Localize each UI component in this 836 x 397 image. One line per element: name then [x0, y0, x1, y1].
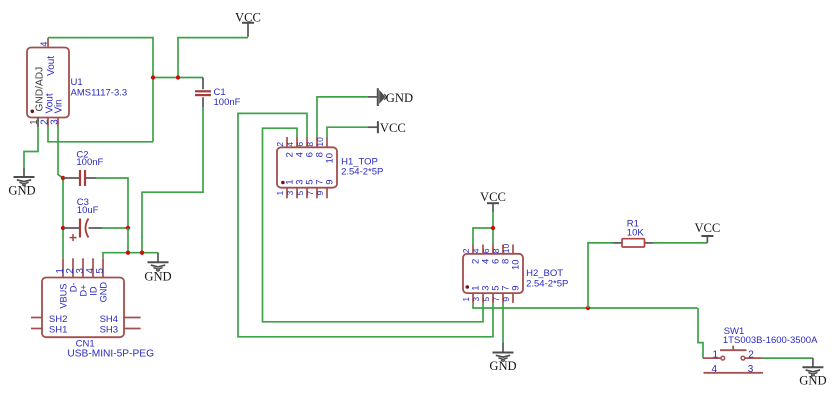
svg-text:8: 8	[305, 142, 315, 147]
wire H1 pin8 to GND flag	[317, 97, 368, 137]
ground flag 1 (left)	[8, 168, 35, 198]
wire H1 pin4 loop (inner) to H2 pin3	[263, 128, 484, 322]
wire GND rail bottom	[103, 253, 158, 259]
wire C1 bottom to GND rail	[142, 107, 203, 252]
svg-text:SH4: SH4	[100, 314, 118, 325]
H2 pin 5 (bottom)	[481, 285, 501, 302]
capacitor C1	[195, 78, 241, 108]
svg-text:GND: GND	[489, 359, 516, 373]
power flag VCC (rotated, H1)	[368, 121, 406, 135]
svg-text:4: 4	[39, 42, 49, 47]
junction R1 bottom	[586, 306, 590, 310]
svg-text:5: 5	[481, 297, 491, 302]
svg-text:1: 1	[275, 191, 285, 196]
svg-text:10K: 10K	[627, 227, 645, 238]
svg-text:100nF: 100nF	[214, 97, 241, 108]
wire SW1 pin2 to GND	[763, 357, 813, 359]
svg-text:SH3: SH3	[100, 324, 118, 335]
junction VCC rail A	[151, 75, 155, 79]
svg-text:7: 7	[305, 191, 315, 196]
svg-text:D-: D-	[68, 282, 78, 292]
svg-text:9: 9	[325, 180, 336, 185]
wire H2 pin7 to GND	[502, 303, 504, 343]
CN1 shield pin SH2	[31, 314, 67, 325]
U1 pin 1 GND/ADJ	[29, 67, 45, 127]
H1 labels	[341, 156, 383, 177]
junction GND rail B	[140, 251, 144, 255]
wire H1 pin6 loop (outer) to H2 pin5	[238, 113, 493, 336]
svg-text:3: 3	[285, 191, 295, 196]
H2 pin 9 (bottom)	[501, 285, 521, 302]
H1 pin 10 (top)	[315, 137, 335, 164]
U1 labels	[71, 77, 128, 99]
svg-text:9: 9	[315, 191, 325, 196]
wire H2 pin1 to R1/SW1	[473, 303, 698, 308]
H1 pin 8 (top)	[305, 137, 325, 157]
CN1 pin 4 ID	[85, 258, 99, 295]
switch SW1	[703, 346, 763, 373]
svg-text:VCC: VCC	[694, 221, 720, 235]
svg-text:10: 10	[511, 259, 522, 270]
capacitor C2	[63, 149, 104, 186]
wire R1 right to VCC	[654, 242, 708, 244]
CN1 pin 3 D+	[75, 258, 89, 296]
svg-text:2.54-2*5P: 2.54-2*5P	[341, 166, 383, 177]
resistor R1	[613, 218, 654, 247]
svg-text:3: 3	[748, 364, 754, 375]
H2 pin 4 (top)	[471, 245, 491, 265]
ground flag 4 (H2)	[489, 343, 516, 373]
svg-text:1: 1	[713, 349, 719, 360]
svg-text:AMS1117-3.3: AMS1117-3.3	[71, 88, 128, 99]
svg-text:2: 2	[461, 248, 471, 253]
H1 pin 1 (bottom)	[275, 180, 295, 199]
junction H2 VCC	[491, 226, 495, 230]
wire U1 pin3 Vin down	[58, 127, 63, 259]
H1 pin 3 (bottom)	[285, 180, 305, 199]
svg-text:VBUS: VBUS	[58, 284, 68, 309]
svg-text:7: 7	[491, 297, 501, 302]
junction Vin/C3	[61, 226, 65, 230]
wire C3 right to GND rail	[102, 227, 128, 229]
U1 pin 2 Vout	[40, 93, 56, 126]
svg-text:8: 8	[491, 248, 501, 253]
U1 pin1 wire to GND	[24, 127, 38, 168]
power flag VCC top	[235, 10, 261, 37]
H2 pin 2 (top)	[461, 245, 481, 265]
svg-text:1: 1	[461, 297, 471, 302]
svg-text:2: 2	[275, 142, 285, 147]
wire C2 right to GND rail	[97, 178, 128, 228]
power flag VCC (H2)	[480, 190, 506, 212]
CN1 shield pin SH4	[100, 314, 141, 325]
wire R1 left	[588, 243, 613, 308]
wire C2C3 down to GND rail	[127, 228, 129, 253]
svg-text:9: 9	[511, 285, 522, 290]
svg-text:10: 10	[325, 153, 336, 164]
wire H1 pin10 to VCC flag	[327, 127, 368, 137]
svg-text:1TS003B-1600-3500A: 1TS003B-1600-3500A	[723, 335, 818, 346]
H1 pin 7 (bottom)	[305, 180, 325, 199]
svg-text:Vin: Vin	[54, 99, 65, 113]
connector CN1 body	[42, 278, 124, 338]
svg-text:10uF: 10uF	[77, 205, 99, 216]
ground flag 2 (USB)	[144, 253, 171, 284]
svg-text:GND: GND	[799, 374, 826, 388]
svg-text:2.54-2*5P: 2.54-2*5P	[526, 278, 568, 289]
svg-text:D+: D+	[78, 284, 88, 296]
SW1 labels	[723, 326, 818, 346]
header H2_BOT body	[463, 254, 523, 293]
svg-text:Vout: Vout	[46, 56, 57, 76]
H2 pin 3 (bottom)	[471, 285, 491, 302]
wire VCC to H2 pin2	[473, 228, 493, 245]
U1 pin 3 Vin	[49, 99, 64, 126]
CN1 shield pin SH1	[31, 324, 67, 335]
H1 pin 1 marker dot	[281, 181, 285, 185]
H2 pin 1 (bottom)	[461, 285, 481, 302]
capacitor C3 (polarized)	[64, 197, 102, 241]
svg-text:3: 3	[49, 119, 60, 125]
wire U1 pin4 to VCC rail left	[48, 38, 153, 142]
regulator U1 body	[27, 48, 69, 118]
H1 pin 4 (top)	[285, 137, 305, 157]
svg-text:5: 5	[95, 268, 106, 274]
junction GND rail A	[126, 251, 130, 255]
H2 pin 8 (top)	[491, 245, 511, 265]
CN1 labels	[67, 339, 154, 360]
svg-text:VCC: VCC	[480, 190, 506, 204]
svg-text:2: 2	[748, 349, 754, 360]
SW1 pin numbers	[712, 349, 755, 375]
H1 pin 2 (top)	[275, 137, 295, 157]
junction C3 right	[126, 226, 130, 230]
H1 pin 5 (bottom)	[295, 180, 315, 199]
ground flag 3 (rotated, H1)	[368, 88, 413, 106]
ground flag 5 (right)	[799, 358, 826, 388]
svg-text:GND: GND	[144, 269, 171, 283]
svg-text:SH2: SH2	[49, 314, 67, 325]
svg-text:GND: GND	[8, 183, 35, 197]
H2 pin 10 (top)	[501, 243, 521, 270]
CN1 pin 2 D-	[65, 258, 79, 292]
svg-text:6: 6	[295, 142, 305, 147]
U1 pin 1 marker dot	[31, 110, 35, 114]
wire VCC rail right up	[178, 38, 248, 78]
junction Vin/C2	[61, 176, 65, 180]
svg-text:5: 5	[295, 191, 305, 196]
svg-text:1: 1	[29, 119, 40, 125]
power flag VCC (R1)	[694, 221, 720, 243]
H2 labels	[526, 268, 568, 289]
svg-text:4: 4	[285, 142, 295, 147]
H1 pin 9 (bottom)	[315, 180, 335, 199]
svg-text:VCC: VCC	[380, 121, 406, 135]
H1 pin 6 (top)	[295, 137, 315, 157]
U1 pin 4 Vout top	[39, 38, 57, 76]
svg-text:10: 10	[501, 243, 511, 253]
CN1 pin 5 GND	[95, 258, 109, 302]
svg-text:VCC: VCC	[235, 10, 261, 24]
H2 pin 6 (top)	[481, 245, 501, 265]
svg-text:ID: ID	[88, 286, 98, 296]
wire VCC rail middle	[153, 77, 203, 79]
svg-text:U1: U1	[71, 77, 83, 88]
H2 pin 1 marker dot	[466, 285, 470, 289]
svg-text:9: 9	[501, 297, 511, 302]
wire U1 pin2 to VCC rail	[48, 127, 153, 142]
junction VCC rail B	[176, 75, 180, 79]
CN1 pin 1 VBUS	[55, 258, 69, 308]
svg-text:USB-MINI-5P-PEG: USB-MINI-5P-PEG	[67, 348, 154, 359]
CN1 shield pin SH3	[100, 324, 141, 335]
svg-text:3: 3	[471, 297, 481, 302]
svg-text:100nF: 100nF	[76, 157, 103, 168]
svg-text:GND: GND	[98, 282, 108, 303]
wire junction to SW1 pin1	[698, 308, 703, 358]
svg-text:6: 6	[481, 248, 491, 253]
svg-text:4: 4	[712, 364, 718, 375]
svg-text:SH1: SH1	[49, 324, 67, 335]
wire VCC to H2 pin6	[492, 212, 494, 244]
svg-text:10: 10	[315, 137, 325, 147]
header H1_TOP body	[277, 147, 337, 187]
H2 pin 7 (bottom)	[491, 285, 511, 302]
svg-text:GND: GND	[386, 91, 413, 105]
svg-text:4: 4	[471, 248, 481, 253]
